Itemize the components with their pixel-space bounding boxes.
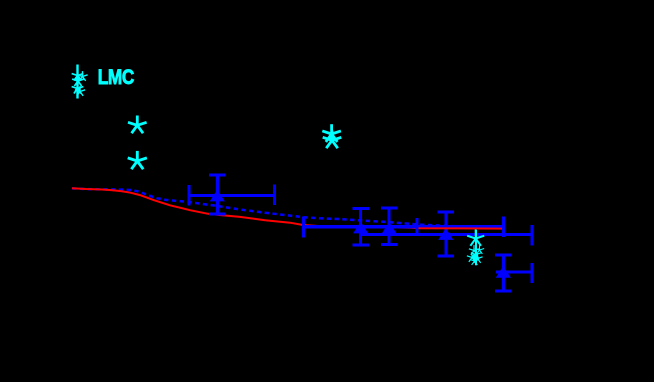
cyan asterisk A	[128, 116, 147, 134]
point P4 vertical error bar and triangle	[438, 212, 455, 256]
P5 triangle marker	[496, 266, 511, 278]
P2 triangle marker	[353, 222, 368, 234]
cyan double asterisk C	[322, 124, 341, 148]
LMC cluster asterisks	[72, 69, 88, 96]
cyan asterisk B	[128, 151, 147, 169]
point P5 error bars	[495, 255, 532, 291]
cyan cluster error bar	[475, 230, 477, 265]
P3 triangle marker	[382, 222, 397, 234]
LMC cluster error bar	[76, 65, 78, 99]
P1 triangle marker	[210, 190, 225, 202]
svg-text:LMC: LMC	[98, 65, 134, 89]
P4 triangle marker	[438, 228, 453, 240]
P2 horizontal error bar (covers red curve)	[304, 225, 418, 228]
cyan cluster asterisks	[467, 229, 484, 264]
point P3 horizontal error bar (under red curve)	[355, 217, 504, 237]
blue dashed model curve	[72, 188, 503, 227]
point P1 error bars	[189, 175, 275, 214]
point P3 vertical error bar	[381, 208, 398, 245]
red model curve	[72, 188, 502, 228]
point P4 horizontal error bar (under curves)	[362, 225, 532, 245]
point P2 error bars	[304, 209, 418, 246]
